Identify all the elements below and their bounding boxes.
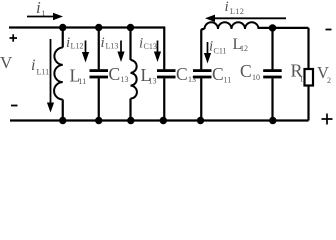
wire L13 bottom [129,99,131,121]
current arrow iL11 [47,39,54,113]
svg-text:12: 12 [240,44,248,53]
svg-text:L12: L12 [230,7,244,16]
label iL2 [225,0,245,16]
inductor L11 [54,48,63,100]
svg-text:10: 10 [252,73,260,82]
svg-text:i: i [31,57,35,74]
capacitor C13a [90,69,109,78]
label L11 [70,66,87,87]
junction dot bottom 5 [197,117,204,124]
junction dot top 2 [95,24,102,31]
junction dot top 1 [59,24,66,31]
svg-text:i: i [225,0,229,15]
wire L13 top [129,28,131,61]
label C11 [212,64,231,85]
bottom rail [10,119,309,121]
label C10 [240,61,260,82]
wire C11 top corner [201,29,204,69]
label iC13 [139,36,157,52]
current arrow iL13 [117,41,124,63]
label L12 [233,36,249,53]
wire R1 bottom [307,86,309,121]
wire C13a bottom [98,78,100,120]
svg-text:C11: C11 [214,47,227,56]
svg-text:C: C [212,64,224,84]
label R1 [291,61,304,84]
top rail right [259,27,309,29]
capacitor C11 [193,69,212,78]
svg-text:L11: L11 [37,68,50,77]
junction dot bottom 3 [127,117,134,124]
svg-text:2: 2 [327,76,331,85]
inductor L12 [205,22,259,29]
wire L11 top [62,28,64,48]
svg-text:11: 11 [79,77,87,86]
svg-text:C: C [109,64,121,84]
junction dot bottom 4 [160,117,167,124]
svg-text:C: C [176,64,188,84]
svg-text:i: i [101,35,105,51]
capacitor C13b [157,69,176,78]
svg-text:13: 13 [149,77,157,86]
svg-text:i: i [36,0,41,17]
svg-text:L13: L13 [106,42,119,51]
wire C10 bottom [271,78,273,120]
wire C13a top [98,28,100,70]
junction dot bottom 6 [269,117,276,124]
svg-text:1: 1 [300,75,304,84]
svg-text:L12: L12 [71,42,84,51]
current arrow iC13 [154,41,161,63]
wire R1 top [307,28,309,69]
current arrow iC11 [204,42,211,64]
junction dot top 4 [269,24,276,31]
current arrow iL12 [82,41,89,63]
capacitor C10 [263,69,282,78]
svg-text:C: C [240,61,252,81]
output plus terminal [322,114,333,125]
label V2 [317,63,331,85]
label i1 [36,0,46,18]
source plus terminal [10,34,18,42]
wire L11 bottom [62,100,64,121]
label C13b [176,64,196,84]
current arrow iL2 [205,15,286,22]
wire C13b top [163,28,165,70]
junction dot top 3 [127,24,134,31]
label iL13 [101,35,119,51]
label iC11 [209,39,227,56]
svg-text:V: V [0,53,13,72]
label iL12 [66,35,83,51]
svg-text:C13: C13 [144,42,157,51]
svg-text:11: 11 [224,76,232,85]
current arrow i1 [27,13,63,20]
svg-text:13: 13 [121,75,129,84]
output minus terminal [326,29,332,31]
junction dot bottom 2 [95,117,102,124]
top rail left [9,26,165,28]
inductor L13 [131,60,137,99]
source minus terminal [11,105,18,107]
wire C10 top [271,28,273,70]
label iL11 [31,57,49,77]
resistor R1 [305,69,314,86]
junction dot bottom 1 [59,117,66,124]
label L13 [141,65,157,86]
wire C11 bottom [200,78,202,120]
wire C13b bottom [163,78,165,120]
label C13a [109,64,129,84]
